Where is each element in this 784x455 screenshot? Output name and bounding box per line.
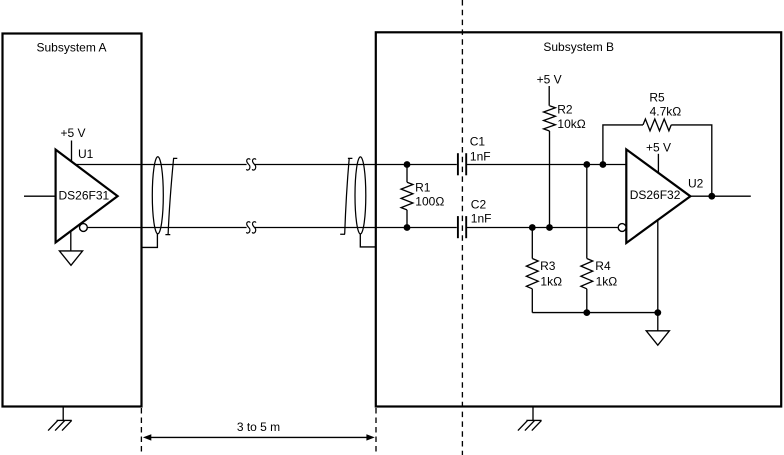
wire: bottom (inverting) line from U1 bubble to cable break	[87, 227, 246, 229]
svg-text:1kΩ: 1kΩ	[540, 275, 562, 289]
svg-text:U2: U2	[688, 177, 704, 191]
resistor R2 10k	[548, 86, 550, 106]
svg-text:C1: C1	[470, 135, 486, 149]
node: R3 to bottom wire	[529, 224, 536, 231]
op-amp U1 triangle DS26F31	[56, 150, 118, 243]
svg-text:1nF: 1nF	[471, 211, 492, 225]
dimension arrow 3 to 5 m	[150, 436, 368, 438]
svg-text:R1: R1	[415, 181, 431, 195]
wire: U2 output	[690, 195, 750, 197]
svg-text:R3: R3	[540, 259, 556, 273]
node: R4 to ground rail	[583, 309, 590, 316]
wire: U1 input stub	[24, 195, 56, 197]
subsystem A box	[3, 34, 142, 407]
twisted pair loop (right end, rear turn)	[340, 158, 352, 234]
node: R1 bottom junction	[404, 224, 411, 231]
capacitor C2 1nF	[457, 216, 459, 238]
twisted pair loop (right end, ellipse)	[355, 157, 366, 234]
svg-text:4.7kΩ: 4.7kΩ	[650, 105, 682, 119]
wire: cable shield hook to subsystem B	[360, 234, 376, 247]
svg-text:U1: U1	[78, 147, 94, 161]
resistor R5 4.7k feedback	[603, 125, 643, 165]
svg-text:R4: R4	[595, 259, 611, 273]
svg-text:1nF: 1nF	[470, 149, 491, 163]
svg-text:DS26F31: DS26F31	[59, 189, 110, 203]
signal ground under U1	[59, 251, 82, 265]
chassis ground under subsystem A	[48, 407, 72, 431]
wire: cable shield hook to subsystem A	[142, 234, 158, 248]
svg-text:R2: R2	[557, 103, 573, 117]
wire: +5V stub into U2	[657, 154, 659, 174]
svg-text:Subsystem A: Subsystem A	[36, 40, 106, 54]
svg-text:Subsystem B: Subsystem B	[543, 40, 614, 54]
wire: U2 ground leg	[657, 220, 659, 331]
resistor R1 100ohm	[406, 165, 408, 183]
svg-text:+5 V: +5 V	[646, 141, 671, 155]
wire: top line from break to C1 left plate	[254, 164, 456, 166]
wire: U1 ground stub	[70, 231, 72, 251]
svg-text:C2: C2	[471, 198, 487, 212]
node: ground leg to rail	[654, 309, 661, 316]
wire: bottom line from C2 right plate to U2 bubble	[466, 227, 618, 229]
wire: top line from C1 right plate to U2 input	[466, 164, 627, 166]
inverting input bubble U2	[618, 224, 626, 232]
node: R5 right to output	[708, 193, 715, 200]
resistor R3 1k	[531, 228, 533, 259]
twisted pair loop (left end, ellipse)	[152, 157, 163, 234]
break mark on top wire	[246, 159, 256, 170]
svg-text:DS26F32: DS26F32	[630, 188, 681, 202]
wire: bottom line from break to C2 left plate	[254, 227, 456, 229]
resistor R4 1k	[586, 165, 588, 259]
dashed extension of subsystem A edge	[140, 408, 142, 455]
dashed region divider line	[461, 0, 463, 455]
dashed extension of subsystem B edge	[375, 408, 377, 455]
break mark on bottom wire	[246, 222, 256, 233]
capacitor C1 1nF	[457, 153, 459, 175]
op-amp U2 triangle DS26F32	[626, 149, 690, 243]
svg-text:3 to 5 m: 3 to 5 m	[237, 420, 280, 434]
node: R2 to bottom wire	[546, 224, 553, 231]
inverting output bubble U1	[80, 224, 88, 232]
subsystem B box	[376, 32, 781, 406]
twisted pair loop (left end, rear turn)	[165, 158, 177, 234]
svg-text:1kΩ: 1kΩ	[596, 275, 618, 289]
node: R1 top junction	[404, 161, 411, 168]
wire: top (non-inverting) line from U1 to cable break	[75, 164, 246, 166]
node: R4 to top wire	[583, 161, 590, 168]
node: R5 left to top wire	[600, 161, 607, 168]
signal ground under U2	[646, 331, 669, 345]
svg-text:+5 V: +5 V	[537, 72, 562, 86]
svg-text:+5 V: +5 V	[60, 126, 85, 140]
svg-text:100Ω: 100Ω	[415, 194, 444, 208]
svg-text:10kΩ: 10kΩ	[557, 117, 585, 131]
wire: +5V stub into U1	[71, 141, 73, 162]
wire: ground rail under R3 R4	[532, 312, 658, 314]
chassis ground under subsystem B	[518, 407, 542, 431]
svg-text:R5: R5	[649, 90, 665, 104]
